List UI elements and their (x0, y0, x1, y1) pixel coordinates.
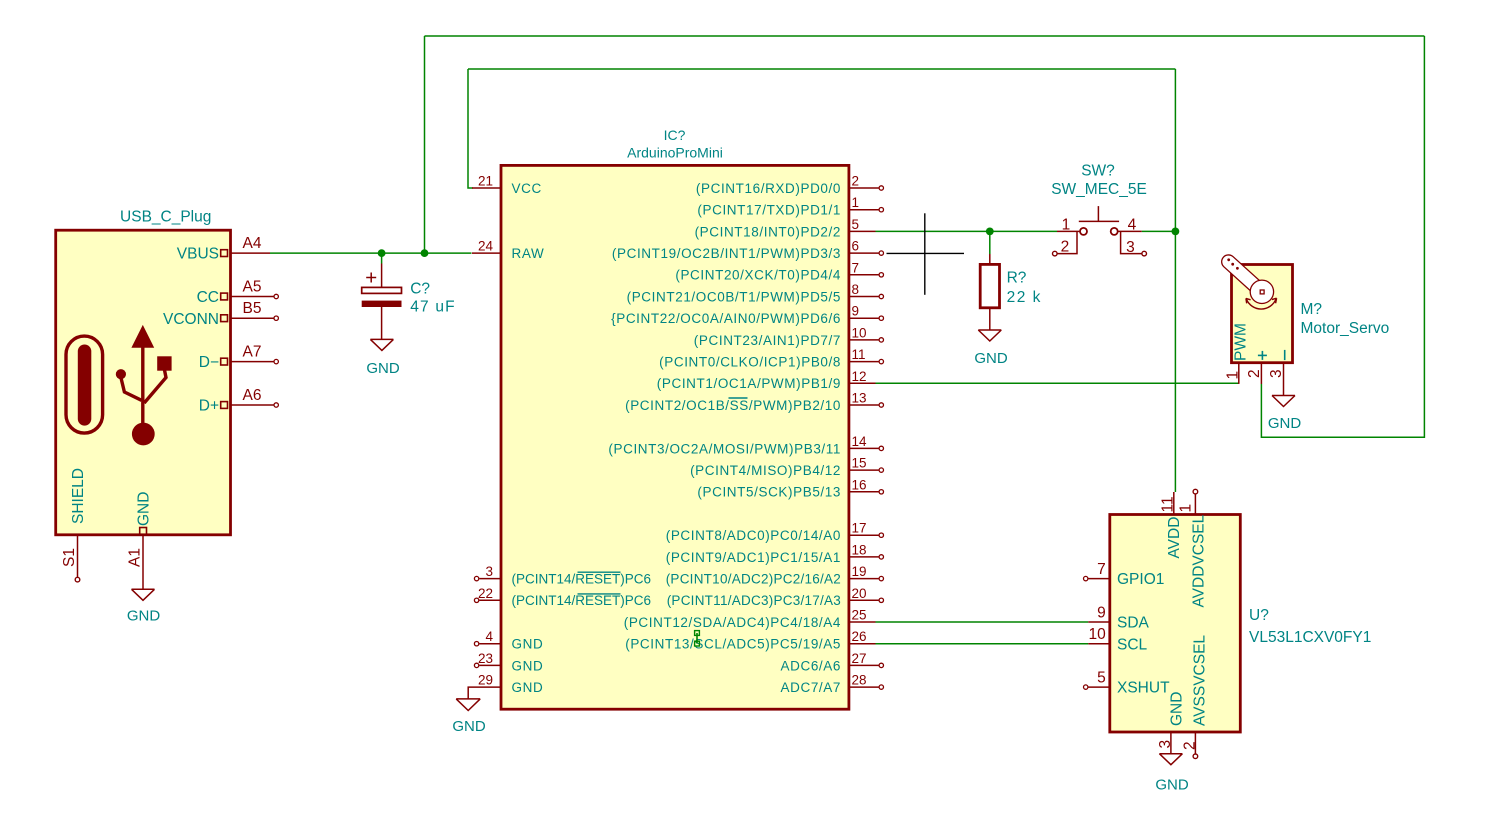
pin 4 GND left of IC (474, 629, 543, 651)
svg-text:SW_MEC_5E: SW_MEC_5E (1051, 181, 1147, 198)
ground below VL53L1 (1155, 754, 1189, 794)
ground below capacitor (366, 339, 400, 377)
svg-text:22: 22 (478, 586, 493, 601)
cursor crosshair (887, 213, 965, 294)
svg-text:27: 27 (852, 651, 867, 666)
svg-text:24: 24 (478, 239, 494, 254)
svg-text:A6: A6 (243, 387, 262, 404)
svg-text:S1: S1 (61, 548, 78, 567)
svg-text:1: 1 (1224, 371, 1241, 380)
pin 15 (PCINT4/MISO)PB4/12 right of IC (690, 456, 883, 478)
svg-text:SDA: SDA (1117, 615, 1150, 632)
pin 3 GND of VL53L1 (1157, 692, 1186, 754)
capacitor C? polarized (362, 253, 402, 339)
svg-text:3: 3 (485, 564, 493, 579)
svg-text:AVSSVCSEL: AVSSVCSEL (1192, 635, 1209, 726)
svg-text:SCL: SCL (1117, 636, 1148, 653)
svg-text:(PCINT14/RESET)PC6: (PCINT14/RESET)PC6 (512, 593, 652, 608)
pin 16 (PCINT5/SCK)PB5/13 right of IC (697, 477, 883, 499)
svg-text:3: 3 (1157, 740, 1174, 749)
svg-text:3: 3 (1268, 369, 1285, 378)
pin 23 GND left of IC (474, 651, 543, 673)
svg-text:1: 1 (852, 195, 860, 210)
svg-text:9: 9 (852, 304, 860, 319)
wire 5V top horizontal (425, 35, 1425, 37)
wire VCC left vertical + into pin 21 (468, 69, 473, 188)
switch SW_MEC_5E contacts (1057, 206, 1142, 235)
svg-text:(PCINT16/RXD)PD0/0: (PCINT16/RXD)PD0/0 (696, 181, 841, 196)
svg-text:USB_C_Plug: USB_C_Plug (120, 209, 211, 226)
svg-text:GND: GND (974, 350, 1008, 367)
pin 3 - of servo (1268, 350, 1285, 396)
pin 28 ADC7/A7 right of IC (781, 673, 884, 695)
svg-text:C?: C? (410, 281, 430, 298)
svg-text:12: 12 (852, 369, 867, 384)
wire node to resistor (989, 231, 991, 254)
label VL53L1CXV0FY1 (1249, 629, 1371, 646)
label M? (1301, 301, 1323, 318)
svg-text:7: 7 (852, 260, 860, 275)
pin 5 (PCINT18/INT0)PD2/2 right of IC (695, 217, 876, 239)
IC U? VL53L1CXV0FY1 body (1110, 515, 1241, 733)
svg-text:(PCINT4/MISO)PB4/12: (PCINT4/MISO)PB4/12 (690, 463, 841, 478)
svg-text:7: 7 (1097, 561, 1106, 578)
svg-text:(PCINT12/SDA/ADC4)PC4/18/A4: (PCINT12/SDA/ADC4)PC4/18/A4 (624, 615, 841, 630)
svg-text:11: 11 (1160, 496, 1177, 512)
pin 7 GPIO1 of VL53L1 (1084, 561, 1165, 588)
wire SCL (876, 643, 1089, 645)
svg-text:14: 14 (852, 434, 868, 449)
switch pin 3 stub (1121, 231, 1147, 256)
svg-text:(PCINT21/OC0B/T1/PWM)PD5/5: (PCINT21/OC0B/T1/PWM)PD5/5 (627, 289, 841, 304)
svg-text:23: 23 (478, 651, 493, 666)
pin labels of switch (1061, 216, 1137, 256)
overline SS pin 13 (729, 397, 748, 399)
switch pin 2 stub (1053, 231, 1078, 256)
svg-text:VL53L1CXV0FY1: VL53L1CXV0FY1 (1249, 629, 1371, 646)
wire dangling stub near SCL (695, 631, 700, 646)
pin 10 (PCINT23/AIN1)PD7/7 right of IC (694, 325, 884, 347)
resistor R? (980, 254, 999, 330)
label IC? (664, 127, 686, 143)
svg-text:21: 21 (478, 174, 493, 189)
svg-text:(PCINT2/OC1B/SS/PWM)PB2/10: (PCINT2/OC1B/SS/PWM)PB2/10 (625, 398, 841, 413)
ground below servo (1268, 396, 1302, 433)
svg-text:(PCINT14/RESET)PC6: (PCINT14/RESET)PC6 (512, 572, 652, 587)
svg-text:(PCINT9/ADC1)PC1/15/A1: (PCINT9/ADC1)PC1/15/A1 (666, 550, 841, 565)
svg-text:2: 2 (1246, 369, 1263, 378)
pin 25 (PCINT12/SDA/ADC4)PC4/18/A4 right of IC (624, 608, 876, 630)
svg-text:(PCINT13/SCL/ADC5)PC5/19/A5: (PCINT13/SCL/ADC5)PC5/19/A5 (625, 637, 841, 652)
wire switch pin 4 to net (1142, 230, 1176, 232)
IC IC? ArduinoProMini body (501, 165, 849, 709)
pin 17 (PCINT8/ADC0)PC0/14/A0 right of IC (666, 521, 884, 543)
svg-text:6: 6 (852, 239, 860, 254)
svg-text:D−: D− (199, 354, 219, 371)
svg-text:1: 1 (1062, 216, 1071, 233)
svg-text:M?: M? (1301, 301, 1323, 318)
svg-text:RAW: RAW (512, 246, 545, 261)
svg-text:28: 28 (852, 673, 867, 688)
pin 6 (PCINT19/OC2B/INT1/PWM)PD3/3 right of IC (612, 239, 884, 261)
pin 21 VCC left of IC (472, 174, 542, 196)
pin A6 D+ of USB_C_Plug (199, 387, 279, 415)
svg-text:10: 10 (1089, 626, 1107, 643)
svg-text:ADC6/A6: ADC6/A6 (781, 658, 841, 673)
svg-text:AVDD: AVDD (1166, 517, 1183, 559)
wire SDA (876, 621, 1089, 623)
svg-text:CC: CC (197, 289, 219, 306)
svg-text:A7: A7 (243, 344, 262, 361)
svg-text:11: 11 (852, 347, 866, 362)
svg-text:(PCINT1/OC1A/PWM)PB1/9: (PCINT1/OC1A/PWM)PB1/9 (657, 376, 841, 391)
svg-text:18: 18 (852, 542, 867, 557)
svg-text:25: 25 (852, 608, 867, 623)
svg-text:47 uF: 47 uF (410, 299, 456, 316)
overline RESET pin 22 (578, 593, 621, 595)
wire PD2 to switch pin 1 (876, 230, 1058, 232)
svg-text:4: 4 (1128, 216, 1137, 233)
wire PB1 to servo PWM (876, 382, 1239, 384)
svg-text:AVDDVCSEL: AVDDVCSEL (1191, 514, 1208, 607)
pin 7 (PCINT20/XCK/T0)PD4/4 right of IC (675, 260, 883, 282)
pin 1 (PCINT17/TXD)PD1/1 right of IC (697, 195, 883, 217)
svg-text:20: 20 (852, 586, 867, 601)
pin 14 (PCINT3/OC2A/MOSI/PWM)PB3/11 right of IC (608, 434, 883, 456)
pin A4 VBUS of USB_C_Plug (177, 235, 270, 263)
svg-text:5: 5 (852, 217, 860, 232)
svg-text:4: 4 (485, 629, 493, 644)
svg-text:17: 17 (852, 521, 867, 536)
svg-text:26: 26 (852, 629, 867, 644)
pin 12 (PCINT1/OC1A/PWM)PB1/9 right of IC (657, 369, 876, 391)
svg-text:GND: GND (127, 608, 161, 625)
svg-text:PWM: PWM (1233, 323, 1250, 361)
svg-text:(PCINT3/OC2A/MOSI/PWM)PB3/11: (PCINT3/OC2A/MOSI/PWM)PB3/11 (608, 441, 841, 456)
svg-text:Motor_Servo: Motor_Servo (1301, 320, 1390, 337)
svg-text:A1: A1 (127, 548, 144, 567)
svg-text:(PCINT5/SCK)PB5/13: (PCINT5/SCK)PB5/13 (697, 485, 841, 500)
svg-text:(PCINT11/ADC3)PC3/17/A3: (PCINT11/ADC3)PC3/17/A3 (667, 593, 841, 608)
svg-text:19: 19 (852, 564, 867, 579)
overline RESET pin 3 (578, 571, 621, 573)
svg-text:15: 15 (852, 456, 867, 471)
pin A7 D− of USB_C_Plug (199, 344, 279, 372)
pin 11 AVDD of VL53L1 (1160, 492, 1184, 559)
svg-text:U?: U? (1249, 607, 1269, 624)
svg-text:10: 10 (852, 325, 867, 340)
wire 5V left vertical (424, 36, 426, 253)
wire VBUS to RAW (270, 252, 472, 254)
pin 2 (PCINT16/RXD)PD0/0 right of IC (696, 174, 884, 196)
svg-text:A4: A4 (243, 235, 262, 252)
pin 24 RAW left of IC (472, 239, 544, 261)
svg-text:GND: GND (1155, 777, 1189, 794)
svg-text:GND: GND (136, 492, 153, 526)
pin 22 (PCINT14/RESET)PC6 left of IC (474, 586, 651, 608)
svg-text:GND: GND (1169, 692, 1186, 726)
label U? (1249, 607, 1269, 624)
svg-text:VBUS: VBUS (177, 246, 219, 263)
wire VCC right vertical to AVDD (1174, 69, 1176, 492)
svg-text:GND: GND (1268, 415, 1302, 432)
svg-text:GND: GND (452, 718, 486, 735)
pin B5 VCONN of USB_C_Plug (163, 300, 278, 328)
svg-text:16: 16 (852, 477, 867, 492)
label SW_MEC_5E (1051, 181, 1147, 198)
svg-text:(PCINT18/INT0)PD2/2: (PCINT18/INT0)PD2/2 (695, 224, 841, 239)
svg-text:5: 5 (1097, 670, 1106, 687)
servo arm symbol (1222, 255, 1277, 309)
pin A1 GND of USB_C_Plug (127, 492, 153, 590)
junction VBUS-5V (421, 249, 429, 257)
label USB_C_Plug (120, 209, 211, 226)
svg-text:R?: R? (1007, 270, 1027, 287)
svg-text:1: 1 (1178, 504, 1195, 513)
svg-text:(PCINT0/CLKO/ICP1)PB0/8: (PCINT0/CLKO/ICP1)PB0/8 (659, 355, 841, 370)
junction VBUS-capacitor (378, 249, 386, 257)
svg-text:IC?: IC? (664, 127, 686, 143)
svg-text:GND: GND (366, 360, 400, 377)
svg-text:SHIELD: SHIELD (70, 468, 87, 524)
label ArduinoProMini (627, 144, 723, 160)
svg-text:{PCINT22/OC0A/AIN0/PWM)PD6/6: {PCINT22/OC0A/AIN0/PWM)PD6/6 (611, 311, 841, 326)
svg-text:VCONN: VCONN (163, 311, 219, 328)
svg-text:GND: GND (512, 637, 544, 652)
wire VCC top horizontal (468, 68, 1175, 70)
label C? 47 uF (410, 281, 456, 316)
svg-text:2: 2 (852, 174, 860, 189)
motor M? Motor_Servo body (1232, 265, 1293, 363)
pin 3 (PCINT14/RESET)PC6 left of IC (474, 564, 651, 586)
svg-text:(PCINT17/TXD)PD1/1: (PCINT17/TXD)PD1/1 (697, 203, 841, 218)
ground below IC pin 29 (452, 699, 486, 735)
svg-text:3: 3 (1126, 239, 1135, 256)
svg-text:GND: GND (512, 680, 544, 695)
svg-text:ADC7/A7: ADC7/A7 (781, 680, 841, 695)
pin 9 {PCINT22/OC0A/AIN0/PWM)PD6/6 right of IC (611, 304, 883, 326)
pin 27 ADC6/A6 right of IC (781, 651, 884, 673)
pin 8 (PCINT21/OC0B/T1/PWM)PD5/5 right of IC (627, 282, 884, 304)
label SW? (1081, 163, 1115, 180)
svg-text:GPIO1: GPIO1 (1117, 571, 1164, 588)
pin 1 AVDDVCSEL of VL53L1 (1178, 489, 1208, 607)
svg-text:ArduinoProMini: ArduinoProMini (627, 144, 723, 160)
svg-text:13: 13 (852, 391, 867, 406)
USB trident logo (66, 325, 172, 446)
pin 20 (PCINT11/ADC3)PC3/17/A3 right of IC (667, 586, 884, 608)
svg-text:SW?: SW? (1081, 163, 1115, 180)
pin 19 (PCINT10/ADC2)PC2/16/A2 right of IC (666, 564, 884, 586)
junction switch-AVDD net (1172, 228, 1180, 236)
pin A5 CC of USB_C_Plug (197, 279, 279, 307)
label Motor_Servo (1301, 320, 1390, 337)
pin 1 PWM of servo (1224, 323, 1249, 384)
svg-text:D+: D+ (199, 398, 219, 415)
svg-text:XSHUT: XSHUT (1117, 680, 1170, 697)
ground below resistor (974, 330, 1008, 367)
pin 29 GND left of IC (468, 673, 543, 699)
pin 26 (PCINT13/SCL/ADC5)PC5/19/A5 right of IC (625, 629, 875, 651)
pin 9 SDA of VL53L1 (1088, 605, 1149, 632)
label R? 22 k (1007, 270, 1042, 306)
pin 2 + of servo (1246, 351, 1267, 384)
svg-text:GND: GND (512, 658, 544, 673)
svg-text:(PCINT23/AIN1)PD7/7: (PCINT23/AIN1)PD7/7 (694, 333, 841, 348)
ground below USB_C_Plug (127, 589, 161, 624)
svg-text:VCC: VCC (512, 181, 542, 196)
svg-text:9: 9 (1097, 605, 1106, 622)
pin S1 SHIELD of USB_C_Plug (61, 468, 87, 582)
pin 11 (PCINT0/CLKO/ICP1)PB0/8 right of IC (659, 347, 883, 369)
svg-text:A5: A5 (243, 279, 262, 296)
svg-text:29: 29 (478, 673, 493, 688)
svg-text:22 k: 22 k (1007, 289, 1042, 306)
wire servo + down-right-up loop (1261, 36, 1424, 437)
junction PD2-resistor (986, 228, 994, 236)
pin 2 AVSSVCSEL of VL53L1 (1181, 635, 1208, 759)
connector J USB_C_Plug body (56, 230, 231, 535)
svg-text:2: 2 (1181, 741, 1198, 750)
svg-text:B5: B5 (243, 300, 262, 317)
svg-text:(PCINT10/ADC2)PC2/16/A2: (PCINT10/ADC2)PC2/16/A2 (666, 572, 841, 587)
pin 18 (PCINT9/ADC1)PC1/15/A1 right of IC (666, 542, 884, 564)
pin 5 XSHUT of VL53L1 (1084, 670, 1171, 697)
svg-text:(PCINT8/ADC0)PC0/14/A0: (PCINT8/ADC0)PC0/14/A0 (666, 528, 841, 543)
pin 13 (PCINT2/OC1B/SS/PWM)PB2/10 right of IC (625, 391, 883, 413)
svg-text:(PCINT20/XCK/T0)PD4/4: (PCINT20/XCK/T0)PD4/4 (675, 268, 841, 283)
pin 10 SCL of VL53L1 (1088, 626, 1147, 653)
svg-text:8: 8 (852, 282, 860, 297)
svg-text:(PCINT19/OC2B/INT1/PWM)PD3/3: (PCINT19/OC2B/INT1/PWM)PD3/3 (612, 246, 841, 261)
svg-text:2: 2 (1061, 238, 1070, 255)
